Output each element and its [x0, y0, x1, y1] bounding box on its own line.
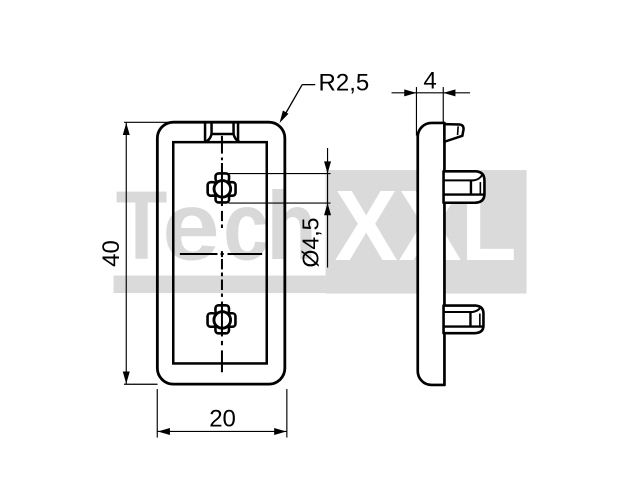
front view inner rect — [173, 142, 267, 363]
svg-text:40: 40 — [98, 240, 125, 267]
svg-text:4: 4 — [423, 68, 436, 95]
vertical centerline — [221, 136, 223, 372]
watermark band — [114, 276, 326, 294]
hole bottom — [208, 302, 236, 337]
horizontal centerline — [180, 253, 262, 255]
side view top lip — [444, 124, 463, 142]
svg-text:R2,5: R2,5 — [319, 70, 370, 97]
watermark box — [326, 170, 527, 293]
clip bottom — [444, 306, 484, 334]
watermark XXL text — [335, 170, 517, 282]
svg-text:Ø4,5: Ø4,5 — [298, 218, 324, 268]
svg-text:20: 20 — [209, 406, 236, 433]
hole top — [208, 173, 236, 206]
side view plate — [418, 123, 445, 385]
dim 4 — [392, 87, 471, 136]
dim diameter 4,5 — [227, 148, 331, 267]
clip top — [444, 171, 485, 202]
front view outer plate — [157, 122, 284, 384]
notch tab — [205, 123, 239, 143]
label R2,5 leader — [283, 85, 315, 118]
dim 20 — [157, 389, 287, 438]
svg-text:X: X — [335, 170, 398, 282]
dim 40 — [124, 122, 181, 384]
watermark Tech text — [116, 172, 317, 281]
